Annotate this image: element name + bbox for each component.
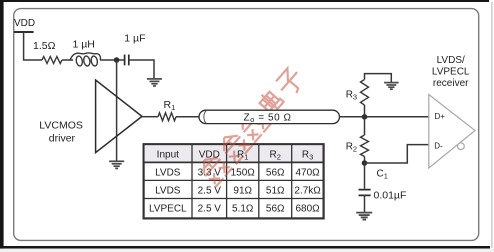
svg-text:2.5 V: 2.5 V (198, 185, 222, 196)
photo border bottom (0, 246, 490, 249)
ground (R3) (384, 83, 399, 90)
table grid (144, 144, 324, 218)
table header text (157, 149, 314, 161)
wire (24, 32, 42, 60)
svg-text:470Ω: 470Ω (296, 167, 321, 178)
resistor 1.5Ω (42, 57, 62, 64)
table header separator (144, 161, 324, 163)
wire (C1 bottom stub) (364, 195, 366, 212)
photo bottom strip (0, 249, 494, 252)
svg-text:2.7kΩ: 2.7kΩ (294, 185, 321, 196)
wire (142, 116, 158, 118)
photo border top (0, 0, 489, 2)
junction dot (node B) (362, 160, 368, 166)
table header background (145, 145, 323, 162)
op-amp LVDS/LVPECL receiver (429, 95, 475, 169)
table row LVDS 3.3V (155, 167, 320, 178)
svg-text:1 µH: 1 µH (73, 38, 95, 50)
wire (176, 116, 199, 118)
svg-text:LVDS: LVDS (155, 167, 181, 178)
svg-text:LVDS/: LVDS/ (437, 55, 465, 66)
capacitor C1 (359, 190, 371, 196)
svg-text:56Ω: 56Ω (266, 203, 285, 214)
table row LVPECL 2.5V (149, 203, 320, 214)
ground (driver) (109, 161, 124, 168)
capacitor C 1 µF (125, 55, 129, 66)
resistor R2 (361, 135, 369, 157)
watermark glyph 1 (xin) (196, 150, 233, 186)
resistor R1 (158, 113, 176, 121)
svg-text:LVCMOS: LVCMOS (39, 120, 83, 132)
VDD rail symbol (14, 31, 34, 33)
ground (filter cap) (147, 79, 162, 86)
junction dot (114, 57, 120, 63)
svg-text:1 µF: 1 µF (124, 33, 145, 45)
wire (R3 top to ground) (365, 74, 392, 83)
transmission line Z0 = 50 Ω (199, 110, 340, 123)
wire (R3 bottom stub) (364, 105, 366, 117)
photo border left (0, 0, 4, 252)
watermark glyph 2 (xin) (216, 128, 253, 164)
svg-text:receiver: receiver (433, 78, 469, 89)
watermark glyph 4 (dian) (257, 88, 284, 115)
svg-text:91Ω: 91Ω (233, 185, 252, 196)
inversion bubble (458, 143, 465, 150)
svg-text:LVPECL: LVPECL (432, 67, 470, 78)
junction dot (node A) (362, 114, 368, 120)
svg-text:LVPECL: LVPECL (149, 203, 187, 214)
svg-text:680Ω: 680Ω (296, 203, 321, 214)
wire (R2 bottom stub) (364, 157, 366, 164)
svg-text:51Ω: 51Ω (266, 185, 285, 196)
op-amp LVCMOS driver (96, 80, 142, 153)
wire (through driver to ground) (116, 60, 118, 161)
svg-text:5.1Ω: 5.1Ω (232, 203, 254, 214)
inductor 1 µH (70, 53, 100, 67)
watermark glyph 5 (zi) (274, 66, 307, 99)
wire (129, 60, 154, 79)
wire (to D-) (365, 145, 429, 163)
svg-text:2.5 V: 2.5 V (198, 203, 222, 214)
wire (100, 59, 125, 61)
svg-text:150Ω: 150Ω (231, 167, 256, 178)
svg-text:1.5Ω: 1.5Ω (33, 40, 56, 52)
watermark (red diagonal CJK-style glyphs) (196, 66, 307, 187)
watermark glyph 3 (xin) (234, 106, 271, 142)
svg-text:LVDS: LVDS (155, 185, 181, 196)
table row LVDS 2.5V (155, 185, 321, 196)
table outer (144, 144, 324, 218)
wire (C1 top stub) (364, 163, 366, 189)
wire (main run to receiver D+) (340, 116, 429, 118)
svg-text:Input: Input (157, 149, 179, 160)
svg-text:Zo = 50 Ω: Zo = 50 Ω (244, 112, 292, 124)
svg-text:driver: driver (49, 133, 76, 145)
resistor R3 (361, 80, 369, 105)
wire (R2 top stub) (364, 117, 366, 135)
wire (62, 59, 73, 61)
photo border right faint (491, 2, 492, 248)
svg-text:0.01µF: 0.01µF (374, 190, 407, 202)
svg-text:D-: D- (434, 142, 443, 151)
svg-text:56Ω: 56Ω (266, 167, 285, 178)
svg-text:VDD: VDD (14, 18, 35, 29)
ground (C1) (356, 213, 372, 220)
svg-text:D+: D+ (435, 112, 446, 121)
